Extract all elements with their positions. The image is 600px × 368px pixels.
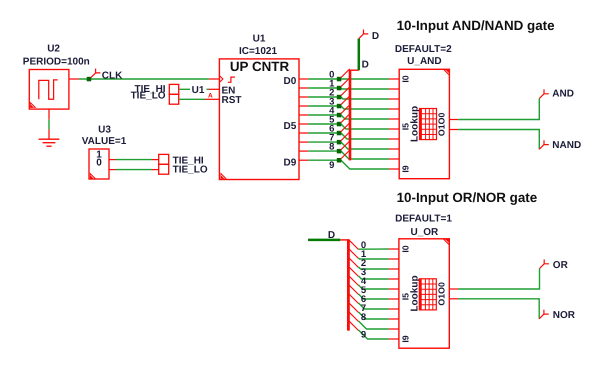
svg-text:TIE_LO: TIE_LO: [131, 90, 166, 101]
pin stub U2 out: [69, 78, 79, 80]
pin stub O1: [449, 119, 458, 121]
selection marker U3: [90, 173, 96, 179]
svg-text:10-Input AND/NAND gate: 10-Input AND/NAND gate: [397, 18, 555, 33]
wire bus to I4: [359, 285, 389, 289]
bus corner connector: [350, 69, 359, 71]
jumper U1 box hi: [169, 84, 178, 94]
svg-text:U2: U2: [47, 44, 60, 55]
net flag NAND: [539, 140, 549, 149]
ground: [39, 139, 60, 146]
wire TIE_HI to EN: [180, 88, 210, 90]
svg-text:8: 8: [361, 312, 366, 323]
pin stub ground: [48, 129, 50, 139]
svg-text:I9: I9: [401, 335, 411, 342]
svg-text:VALUE=1: VALUE=1: [82, 136, 127, 147]
svg-text:O1O0: O1O0: [437, 282, 447, 306]
wire D8: [308, 151, 389, 159]
bus slashes right: [349, 240, 358, 330]
wire bus to I3: [359, 276, 389, 279]
clock input notch: [219, 76, 223, 83]
svg-text:OR: OR: [553, 260, 569, 271]
selection marker U2: [30, 102, 36, 108]
wire U3 to TIE_LO: [116, 169, 153, 171]
bus D thick wire: [308, 239, 340, 242]
svg-text:IC=1021: IC=1021: [239, 46, 278, 57]
bus D vertical line: [349, 70, 352, 161]
bus D vertical line: [347, 239, 350, 330]
lookup table icon: [419, 279, 436, 310]
pin stub EN: [209, 88, 219, 90]
wire D9: [308, 160, 389, 169]
wire CLK: [79, 78, 209, 80]
jumper pair label U1: [190, 86, 207, 94]
svg-text:9: 9: [329, 160, 334, 171]
SECTION: U_AND: [389, 18, 581, 179]
wire TIE_LO to RST: [180, 98, 206, 100]
wire D7: [308, 142, 389, 149]
digital source U3 body: [89, 149, 109, 179]
svg-text:U1: U1: [253, 34, 266, 45]
svg-text:I0: I0: [401, 75, 411, 82]
svg-text:DEFAULT=2: DEFAULT=2: [395, 44, 452, 55]
SECTION: bus D left: [308, 30, 389, 171]
pin stubs I0-I9: [389, 249, 399, 339]
lookup table icon: [420, 109, 437, 140]
svg-text:AND: AND: [552, 88, 574, 99]
svg-text:NOR: NOR: [553, 310, 576, 321]
svg-text:0: 0: [96, 158, 102, 169]
wire OR output: [458, 269, 540, 290]
bus line numbers 0-9: [329, 69, 335, 170]
wire U2 to ground: [48, 120, 50, 130]
clock edge glyph: [228, 77, 235, 82]
pin stub TIE_HI jumper: [152, 159, 159, 161]
svg-text:RST: RST: [222, 95, 242, 106]
net flag OR: [540, 259, 550, 268]
svg-text:D9: D9: [284, 157, 297, 168]
pin stub U3 out0: [109, 169, 116, 171]
wire bus to I1: [359, 258, 389, 259]
pin stubs I0-I9: [389, 79, 399, 169]
bus riser D thick wire: [358, 39, 361, 71]
wire bus to I0: [359, 248, 389, 250]
SECTION: U1 counter: [219, 34, 308, 180]
svg-text:U1: U1: [192, 85, 205, 96]
wire D5: [308, 124, 389, 129]
wire NAND output: [458, 130, 539, 150]
jumper U3 box lo: [159, 164, 169, 174]
svg-text:U3: U3: [98, 125, 111, 136]
wire bus to I2: [359, 267, 389, 269]
pin stub RST: [205, 98, 219, 100]
bus slashes left: [341, 69, 350, 159]
pin stubs D0-D9: [299, 79, 308, 160]
svg-text:TIE_LO: TIE_LO: [173, 164, 208, 175]
pin stub O1: [449, 288, 458, 290]
net flag D top: [359, 30, 369, 39]
wire D0 counter to U_AND: [308, 78, 389, 80]
SECTION: bus D right: [308, 230, 389, 340]
clock waveform glyph: [39, 80, 58, 99]
lookup gate U_AND body: [399, 69, 449, 178]
svg-text:9: 9: [361, 330, 366, 341]
junction CLK: [87, 77, 92, 82]
wire D2: [308, 97, 389, 99]
wire NOR output: [458, 299, 539, 319]
SECTION: U2 clock source: [23, 44, 90, 147]
jumper U3 box hi: [159, 154, 169, 164]
junction squares bus entries: [337, 77, 342, 163]
SECTION: tie jumpers and U3: [82, 84, 220, 179]
svg-text:D: D: [362, 60, 369, 71]
wire D1: [308, 88, 389, 89]
pin stub O0: [449, 129, 458, 131]
pin stub O0: [449, 298, 458, 300]
svg-text:PERIOD=100n: PERIOD=100n: [23, 57, 90, 68]
wire bus to I7: [359, 312, 389, 319]
pin stub U2 gnd: [48, 109, 50, 120]
wire bus to I5: [359, 294, 389, 299]
pin stub TIE_LO jumper: [152, 169, 159, 171]
pin stub U1 clock: [209, 78, 219, 80]
wire bus to I8: [359, 321, 389, 329]
net flag NOR: [539, 310, 549, 319]
svg-text:NAND: NAND: [552, 140, 581, 151]
net flag CLK: [91, 69, 101, 78]
svg-text:U_OR: U_OR: [411, 227, 440, 238]
wire D4: [308, 115, 389, 119]
selection marker U_AND: [443, 70, 449, 76]
wire D6: [308, 133, 389, 139]
svg-text:D0: D0: [284, 76, 297, 87]
SECTION: U_OR: [389, 190, 576, 348]
clock source U2 body: [29, 70, 69, 110]
wire AND output: [458, 99, 539, 120]
svg-text:CLK: CLK: [102, 70, 123, 81]
svg-text:I9: I9: [401, 165, 411, 172]
pin stub U3 out1: [109, 159, 116, 161]
net flag AND: [539, 89, 549, 98]
wire U3 to TIE_HI: [116, 159, 153, 161]
wire bus to I9: [359, 330, 389, 339]
svg-text:D5: D5: [284, 121, 297, 132]
wire bus to I6: [359, 303, 389, 309]
SECTION: CLK net: [79, 69, 219, 82]
svg-text:I0: I0: [401, 245, 411, 252]
svg-text:UP CNTR: UP CNTR: [230, 59, 290, 74]
svg-text:O1O0: O1O0: [437, 113, 447, 137]
svg-text:10-Input OR/NOR gate: 10-Input OR/NOR gate: [397, 190, 538, 205]
svg-text:DEFAULT=1: DEFAULT=1: [395, 214, 452, 225]
svg-text:U_AND: U_AND: [407, 56, 441, 67]
up counter U1 body: [219, 59, 299, 180]
lookup gate U_OR body: [399, 239, 449, 348]
bus line numbers 0-9: [361, 240, 367, 341]
jumper U1 box lo: [169, 94, 178, 104]
wire D3: [308, 106, 389, 109]
svg-text:D: D: [372, 31, 379, 42]
bus corner connector: [340, 239, 348, 241]
svg-text:8: 8: [329, 142, 334, 153]
selection marker U_OR: [443, 239, 449, 245]
selection marker U1: [221, 172, 227, 178]
svg-text:A: A: [208, 93, 213, 100]
